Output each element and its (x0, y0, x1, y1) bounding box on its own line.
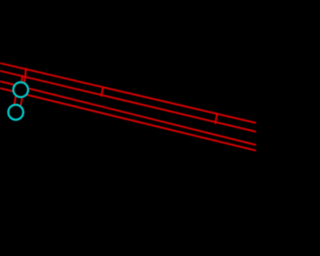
tick T3 between A and B (215, 114, 217, 123)
leg wire from node N1 to bus B (right) (24, 77, 25, 85)
connector wire node N1 to node N2 (left) (14, 97, 16, 106)
node N2 circle (8, 105, 23, 120)
node N1 circle (13, 82, 28, 97)
wire bus line B (0, 70, 258, 132)
tick T1 between A and B (24, 69, 27, 78)
tick T2 between A and B (101, 87, 103, 96)
connector wire node N1 to node N2 (right) (21, 97, 23, 106)
leg wire from node N1 to bus B (left) (21, 76, 22, 84)
wire bus line C (0, 81, 258, 146)
wire bus line D (0, 88, 258, 151)
wire bus line A (0, 63, 258, 124)
